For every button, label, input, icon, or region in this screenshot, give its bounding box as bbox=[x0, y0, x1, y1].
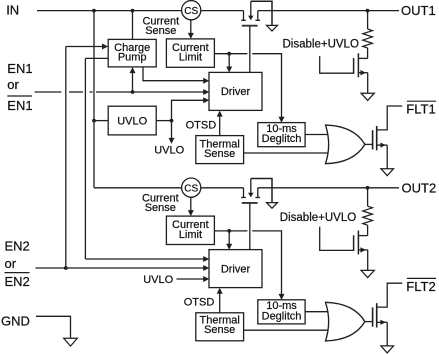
svg-text:OUT1: OUT1 bbox=[401, 3, 436, 18]
svg-text:FLT1: FLT1 bbox=[406, 102, 435, 117]
svg-text:GND: GND bbox=[1, 313, 30, 328]
svg-text:Disable+UVLO: Disable+UVLO bbox=[283, 39, 359, 51]
svg-text:UVLO: UVLO bbox=[117, 115, 147, 127]
svg-text:EN2: EN2 bbox=[5, 274, 30, 289]
svg-text:Driver: Driver bbox=[221, 263, 251, 275]
svg-text:Limit: Limit bbox=[179, 52, 202, 64]
svg-text:OUT2: OUT2 bbox=[402, 181, 437, 196]
svg-text:Deglitch: Deglitch bbox=[262, 133, 302, 145]
svg-text:Sense: Sense bbox=[145, 202, 176, 214]
svg-text:Driver: Driver bbox=[221, 86, 251, 98]
svg-text:EN1: EN1 bbox=[7, 98, 32, 113]
svg-text:CS: CS bbox=[184, 183, 198, 194]
svg-text:FLT2: FLT2 bbox=[406, 279, 435, 294]
svg-text:Disable+UVLO: Disable+UVLO bbox=[280, 212, 356, 224]
svg-text:Pump: Pump bbox=[118, 52, 147, 64]
svg-text:Deglitch: Deglitch bbox=[262, 310, 302, 322]
svg-text:OTSD: OTSD bbox=[186, 119, 217, 131]
svg-text:CS: CS bbox=[184, 6, 198, 17]
svg-text:UVLO: UVLO bbox=[154, 145, 184, 157]
svg-text:OTSD: OTSD bbox=[184, 297, 215, 309]
svg-text:or: or bbox=[7, 77, 19, 92]
svg-text:Limit: Limit bbox=[179, 229, 202, 241]
svg-text:UVLO: UVLO bbox=[143, 274, 173, 286]
svg-text:Sense: Sense bbox=[204, 324, 235, 336]
svg-text:Sense: Sense bbox=[204, 148, 235, 160]
svg-text:or: or bbox=[5, 256, 17, 271]
svg-text:EN1: EN1 bbox=[7, 61, 32, 76]
svg-text:Sense: Sense bbox=[145, 25, 176, 37]
svg-text:EN2: EN2 bbox=[5, 239, 30, 254]
svg-text:IN: IN bbox=[6, 3, 19, 18]
